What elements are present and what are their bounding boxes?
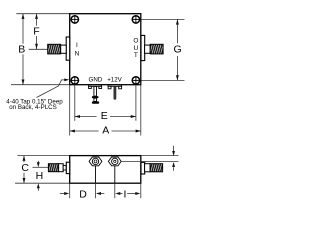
svg-text:C: C [21,162,29,174]
svg-text:U: U [134,45,139,52]
svg-text:I: I [123,189,126,201]
dimension G [174,19,182,80]
feedthrough centerline extension right [121,160,178,162]
bottom extension line left of case (case bottom edge extended) [11,84,70,86]
svg-text:D: D [79,189,87,201]
side view IN connector barrel [48,164,58,172]
side view IN connector neck [63,165,66,170]
dimension A [70,124,141,136]
slab top edge extension right [141,155,179,157]
svg-text:O: O [133,37,138,44]
screw bottom-right [132,76,141,85]
label OUT [133,37,138,59]
IN connector threaded barrel [48,44,61,54]
GND feedthrough hex [89,157,102,166]
+12V feedthrough hex [108,157,121,166]
svg-text:on Back, 4-PLCS: on Back, 4-PLCS [9,104,56,111]
side connector centerline extension for dim H [33,166,49,168]
GND feedthrough pin (hidden line) [95,166,97,183]
+12V pin [114,86,117,99]
IN connector body [61,45,67,53]
+12V terminal bracket [108,85,122,89]
dimension A extension lines [70,85,141,136]
small right dimension (terminal depth) [172,146,175,171]
slab bottom edge extension left [15,182,70,184]
slab top edge extension left [18,155,70,157]
dimension E [75,110,136,122]
screw bottom-left [71,76,80,85]
IN connector centerline extension for dim F [29,48,48,50]
side view IN connector flange [66,162,69,173]
dimension F [33,14,39,49]
dimension E extension lines (screw centers extended down) [75,85,136,121]
note leader arrow [37,78,70,97]
slab outline (side view) [70,156,141,184]
svg-text:I: I [76,42,78,49]
OUT connector flange [141,35,145,60]
+12V feedthrough pin (hidden line) [114,166,116,183]
screw top-right [132,15,141,24]
svg-text:G: G [174,43,182,55]
svg-text:GND: GND [89,77,103,84]
side view IN connector body [59,164,64,172]
svg-text:+12V: +12V [107,77,122,84]
dimension D [60,189,104,201]
IN connector flange [66,37,70,60]
label +12V [107,77,122,84]
GND terminal bracket [89,85,102,89]
screw top-left [71,15,80,24]
svg-text:N: N [75,50,80,57]
dimension G extension lines (screw centerlines extended right) [141,19,185,80]
note text 4-40 tap [6,98,63,111]
OUT connector body [145,45,151,53]
side view OUT connector barrel [150,164,163,172]
svg-text:E: E [101,110,108,122]
dimension B [18,14,25,85]
dimension D/I extension lines below slab [70,183,141,198]
GND pin with beads [92,86,99,103]
svg-text:F: F [33,26,39,38]
case outline (top view) [70,14,141,85]
dimension I [115,189,140,201]
label IN [75,42,80,57]
svg-text:B: B [18,44,25,56]
svg-text:H: H [36,170,44,182]
side view OUT connector body [145,164,151,172]
side view OUT connector flange [141,162,145,174]
svg-text:T: T [134,52,138,59]
top extension line left of case (case top edge extended) [16,13,69,15]
OUT connector threaded barrel [150,44,163,54]
svg-text:A: A [102,124,109,136]
dimension C [21,156,29,184]
dimension H [36,161,44,191]
label GND [89,77,103,84]
